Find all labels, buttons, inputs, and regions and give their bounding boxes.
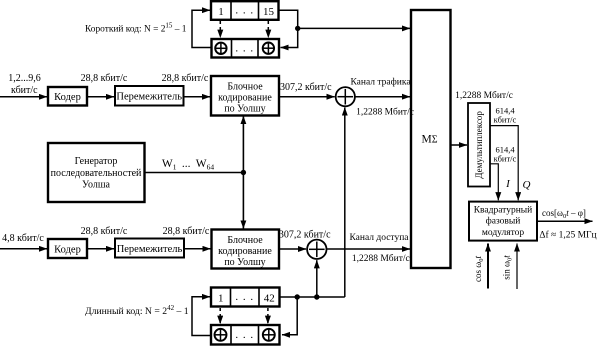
SR2 cell divider b (258, 288, 260, 307)
XOR gate X2b (263, 329, 275, 341)
coder2 block (48, 239, 87, 258)
svg-text:Блочное: Блочное (227, 82, 263, 93)
svg-text:28,8 кбит/с: 28,8 кбит/с (162, 73, 209, 84)
wire long code up to adder2 (316, 260, 318, 297)
shift register SR2 (42-stage) (211, 288, 280, 307)
svg-text:Перемежитель: Перемежитель (117, 244, 183, 255)
svg-text:кбит/с: кбит/с (494, 154, 517, 164)
svg-text:Кодер: Кодер (54, 245, 81, 256)
SR1 cell divider b (258, 1, 260, 20)
svg-text:1,2...9,6: 1,2...9,6 (8, 73, 41, 84)
walsh generator block (48, 143, 145, 202)
svg-text:кбит/с: кбит/с (11, 85, 38, 96)
X2 cell divider a (230, 325, 232, 345)
wire walsh2 to adder2 (279, 248, 306, 250)
svg-text:28,8 кбит/с: 28,8 кбит/с (81, 226, 128, 237)
adder A2 (access) (307, 240, 326, 259)
modulator block (469, 202, 537, 241)
wire interleaver2 to walsh2 (184, 248, 211, 250)
svg-text:. . .: . . . (235, 329, 254, 341)
wire demux I out (490, 164, 498, 201)
feedback wire X1 out to SR1 in (192, 10, 212, 47)
interleaver1 block (115, 86, 184, 106)
wire MUX to demux (451, 144, 468, 146)
wire walsh up to walsh1 (242, 116, 244, 173)
svg-text:Генератор: Генератор (75, 156, 118, 167)
dashed tap SR2 cell42 to X2b (267, 308, 269, 324)
svg-text:42: 42 (264, 293, 275, 305)
svg-text:307,2 кбит/с: 307,2 кбит/с (280, 82, 332, 93)
XOR row X2 (211, 325, 280, 345)
svg-text:4,8 кбит/с: 4,8 кбит/с (2, 233, 44, 244)
svg-text:307,2 кбит/с: 307,2 кбит/с (279, 230, 331, 241)
svg-text:W1 ... W64: W1 ... W64 (162, 158, 214, 172)
adder A1 (traffic) (336, 87, 355, 106)
svg-text:последовательностей: последовательностей (51, 168, 142, 179)
wire interleaver1 to walsh1 (184, 96, 211, 98)
XOR gate X1b (263, 43, 274, 54)
svg-text:по Уолшу: по Уолшу (224, 104, 265, 115)
coder1 block (48, 87, 87, 106)
svg-text:модулятор: модулятор (482, 228, 525, 238)
feedback wire X2 out to SR2 in (192, 297, 211, 336)
svg-text:по Уолшу: по Уолшу (224, 257, 265, 268)
wire long code up to adder1 (344, 108, 346, 298)
dashed tap SR2 cell1 to X2a (219, 308, 221, 324)
dashed tap from SR1 cell15 to X1b (267, 21, 269, 38)
wire SR1 out to X1 right input (279, 10, 298, 47)
svg-text:1: 1 (218, 6, 224, 18)
walsh coder 2 block (212, 230, 280, 269)
demux block (468, 103, 490, 187)
svg-text:Канал трафика: Канал трафика (350, 77, 411, 88)
svg-text:Длинный код: N = 242 – 1: Длинный код: N = 242 – 1 (85, 304, 189, 317)
SR2 cell divider a (230, 288, 232, 307)
svg-text:Канал доступа: Канал доступа (349, 233, 409, 243)
svg-text:15: 15 (263, 6, 275, 18)
svg-text:кбит/с: кбит/с (494, 115, 517, 125)
wire long-code feedback to X2 (282, 297, 297, 335)
junction walsh (241, 170, 246, 175)
wire input to coder2 (0, 248, 47, 250)
wire input to coder1 (0, 96, 47, 98)
svg-text:Блочное: Блочное (227, 235, 263, 246)
XOR gate X1a (215, 43, 226, 54)
X1 cell divider b (257, 39, 259, 58)
svg-text:. . .: . . . (235, 43, 254, 55)
svg-text:28,8 кбит/с: 28,8 кбит/с (81, 73, 128, 84)
cos carrier input (487, 244, 489, 289)
junction long-code feedback (295, 294, 300, 299)
wire coder2 to interleaver2 (87, 248, 114, 250)
svg-text:Перемежитель: Перемежитель (116, 92, 182, 103)
svg-text:1,2288 Мбит/с: 1,2288 Мбит/с (356, 107, 414, 118)
svg-text:1: 1 (218, 293, 224, 305)
svg-text:Короткий код: N = 215 – 1: Короткий код: N = 215 – 1 (85, 22, 187, 35)
wire modulator output (537, 220, 593, 222)
svg-text:Δf ≈ 1,25 МГц: Δf ≈ 1,25 МГц (539, 230, 596, 241)
svg-text:Q: Q (523, 179, 531, 191)
SR1 cell divider a (230, 1, 232, 20)
svg-text:1,2288 Мбит/с: 1,2288 Мбит/с (352, 253, 410, 264)
wire generator output (145, 172, 244, 174)
wire short code to MUX (298, 27, 410, 29)
wire walsh1 to adder1 (279, 96, 335, 98)
svg-text:1,2288 Мбит/с: 1,2288 Мбит/с (455, 90, 513, 101)
MUX block (411, 10, 451, 268)
wire coder1 to interleaver1 (87, 96, 114, 98)
svg-text:. . .: . . . (235, 5, 254, 17)
svg-text:МΣ: МΣ (421, 134, 437, 146)
interleaver2 block (115, 239, 184, 258)
svg-text:кодирование: кодирование (218, 93, 272, 104)
wire adder2 to MUX (327, 248, 411, 250)
walsh coder 1 block (211, 76, 279, 116)
svg-text:Уолша: Уолша (82, 180, 111, 191)
wire demux Q out (490, 126, 518, 201)
XOR gate X2a (215, 329, 227, 341)
junction long-code to access adder (314, 294, 319, 299)
sin carrier input (516, 244, 518, 290)
svg-text:. . .: . . . (235, 291, 254, 303)
junction short-code output (295, 26, 300, 31)
XOR row X1 (212, 39, 280, 58)
X1 cell divider a (231, 39, 233, 58)
shift register SR1 (15-stage) (211, 1, 279, 20)
X2 cell divider b (258, 325, 260, 345)
wire adder1 to MUX (355, 96, 410, 98)
svg-text:Квадратурный: Квадратурный (474, 205, 533, 216)
svg-text:Кодер: Кодер (54, 92, 81, 103)
svg-text:28,8 кбит/с: 28,8 кбит/с (163, 226, 210, 237)
wire SR2 output right (280, 296, 345, 298)
svg-text:Демультиплексор: Демультиплексор (474, 111, 484, 179)
dashed tap from SR1 cell1 to X1a (219, 21, 221, 38)
svg-text:фазовый: фазовый (486, 216, 521, 227)
wire walsh down to walsh2 (242, 173, 244, 229)
svg-text:кодирование: кодирование (218, 246, 272, 257)
